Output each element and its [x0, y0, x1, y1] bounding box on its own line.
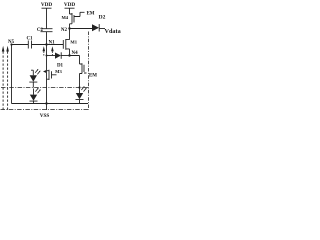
- arrow mark on centre wire (mid): [43, 70, 46, 73]
- VSS tap: [46, 104, 48, 111]
- transistor M3: [47, 69, 63, 80]
- junction dot left corner: [10, 43, 12, 45]
- capacitor C2: [37, 28, 53, 45]
- node N2: [61, 27, 71, 33]
- svg-text:Vdata: Vdata: [105, 28, 121, 35]
- scan bus dashed arrow 1: [2, 46, 5, 110]
- transistor M1: [63, 39, 77, 50]
- svg-text:EM: EM: [89, 74, 97, 79]
- diode D1: [55, 52, 64, 68]
- wire N4 corner to M5: [70, 56, 80, 65]
- svg-text:N2: N2: [61, 28, 68, 33]
- current arrow at N1 (on centre wire): [43, 46, 46, 51]
- svg-text:D1: D1: [57, 64, 64, 69]
- left vertical wire: [11, 45, 13, 104]
- transistor M5 (EM switch): [80, 63, 87, 80]
- centre vertical wire N1 to bottom bus: [46, 45, 48, 104]
- wire N2 to M1 drain: [69, 29, 71, 40]
- OLED diode right: [76, 86, 87, 103]
- wire M1 source to N4: [69, 49, 71, 56]
- junction at row boundary: [78, 86, 80, 88]
- svg-text:VDD: VDD: [41, 2, 52, 8]
- bottom boundary dashed line: [1, 109, 89, 111]
- diode D2: [92, 14, 106, 31]
- svg-text:VDD: VDD: [64, 2, 75, 8]
- wire N2 to D2: [70, 28, 93, 30]
- wire M4 drain to node N2: [70, 24, 73, 29]
- OLED diode upper-left: [29, 69, 40, 88]
- svg-text:M4: M4: [61, 15, 68, 20]
- capacitor C1: [26, 37, 33, 49]
- svg-text:N1: N1: [49, 41, 56, 46]
- scan bus dashed arrow 2: [6, 46, 9, 110]
- OLED diode lower-left: [30, 88, 41, 104]
- current arrow 2 (beside centre wire): [51, 46, 54, 55]
- transistor M4: [61, 12, 84, 23]
- svg-text:M1: M1: [70, 40, 77, 45]
- wire D2 to Vdata: [99, 28, 105, 30]
- wire D1 to N4: [61, 55, 69, 57]
- bottom bus wire: [12, 103, 89, 105]
- wire left node to C1: [12, 44, 29, 46]
- node N1: [45, 41, 55, 46]
- svg-text:C1: C1: [26, 37, 33, 42]
- node N4: [68, 51, 78, 57]
- VDD supply 1 (left): [41, 2, 52, 28]
- svg-text:VSS: VSS: [40, 113, 50, 119]
- svg-text:M3: M3: [55, 69, 62, 74]
- row boundary dash-dot line: [1, 87, 89, 89]
- wire C1 to M1 gate: [32, 44, 64, 46]
- wire centre to D1: [47, 55, 56, 57]
- junction dot bottom centre: [45, 102, 47, 104]
- svg-text:EM: EM: [86, 12, 94, 17]
- VDD supply 2 (right): [64, 2, 75, 13]
- svg-text:D2: D2: [99, 14, 106, 20]
- column boundary dashed line: [88, 32, 90, 111]
